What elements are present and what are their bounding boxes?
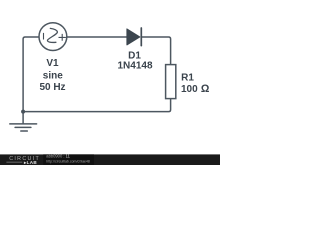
svg-text:100: 100: [181, 84, 198, 95]
V1 plus sign: [59, 34, 66, 41]
svg-text:sine: sine: [43, 70, 63, 81]
svg-text:1N4148: 1N4148: [117, 60, 152, 71]
diode D1 cathode bar: [140, 28, 142, 46]
svg-text:▸LAB: ▸LAB: [23, 160, 37, 165]
svg-text:abb0900 : 11: abb0900 : 11: [46, 154, 70, 159]
wire left rail (V1 left terminal down to ground): [23, 37, 39, 123]
V1 minus sign (vertical bar, rotated): [43, 33, 45, 40]
voltage source V1 circle: [39, 23, 67, 51]
diode D1 triangle: [127, 29, 140, 45]
svg-text:V1: V1: [46, 58, 59, 69]
watermark black bar: [0, 154, 220, 165]
watermark info box: [43, 154, 94, 165]
svg-text:Ω: Ω: [201, 83, 210, 95]
svg-text:http://circuitlab.com/c/9ae48: http://circuitlab.com/c/9ae48: [46, 159, 90, 163]
junction node dot: [21, 110, 25, 114]
ground symbol: [10, 124, 37, 131]
svg-text:50 Hz: 50 Hz: [39, 82, 65, 93]
svg-text:R1: R1: [181, 72, 194, 83]
wire bottom rail: [23, 99, 171, 112]
wire diode cathode to resistor top: [141, 37, 170, 65]
resistor R1 box: [166, 65, 176, 99]
logo LAB line: [6, 161, 22, 163]
wire V1 right terminal to diode anode: [67, 36, 127, 38]
V1 sine squiggle: [47, 28, 57, 42]
